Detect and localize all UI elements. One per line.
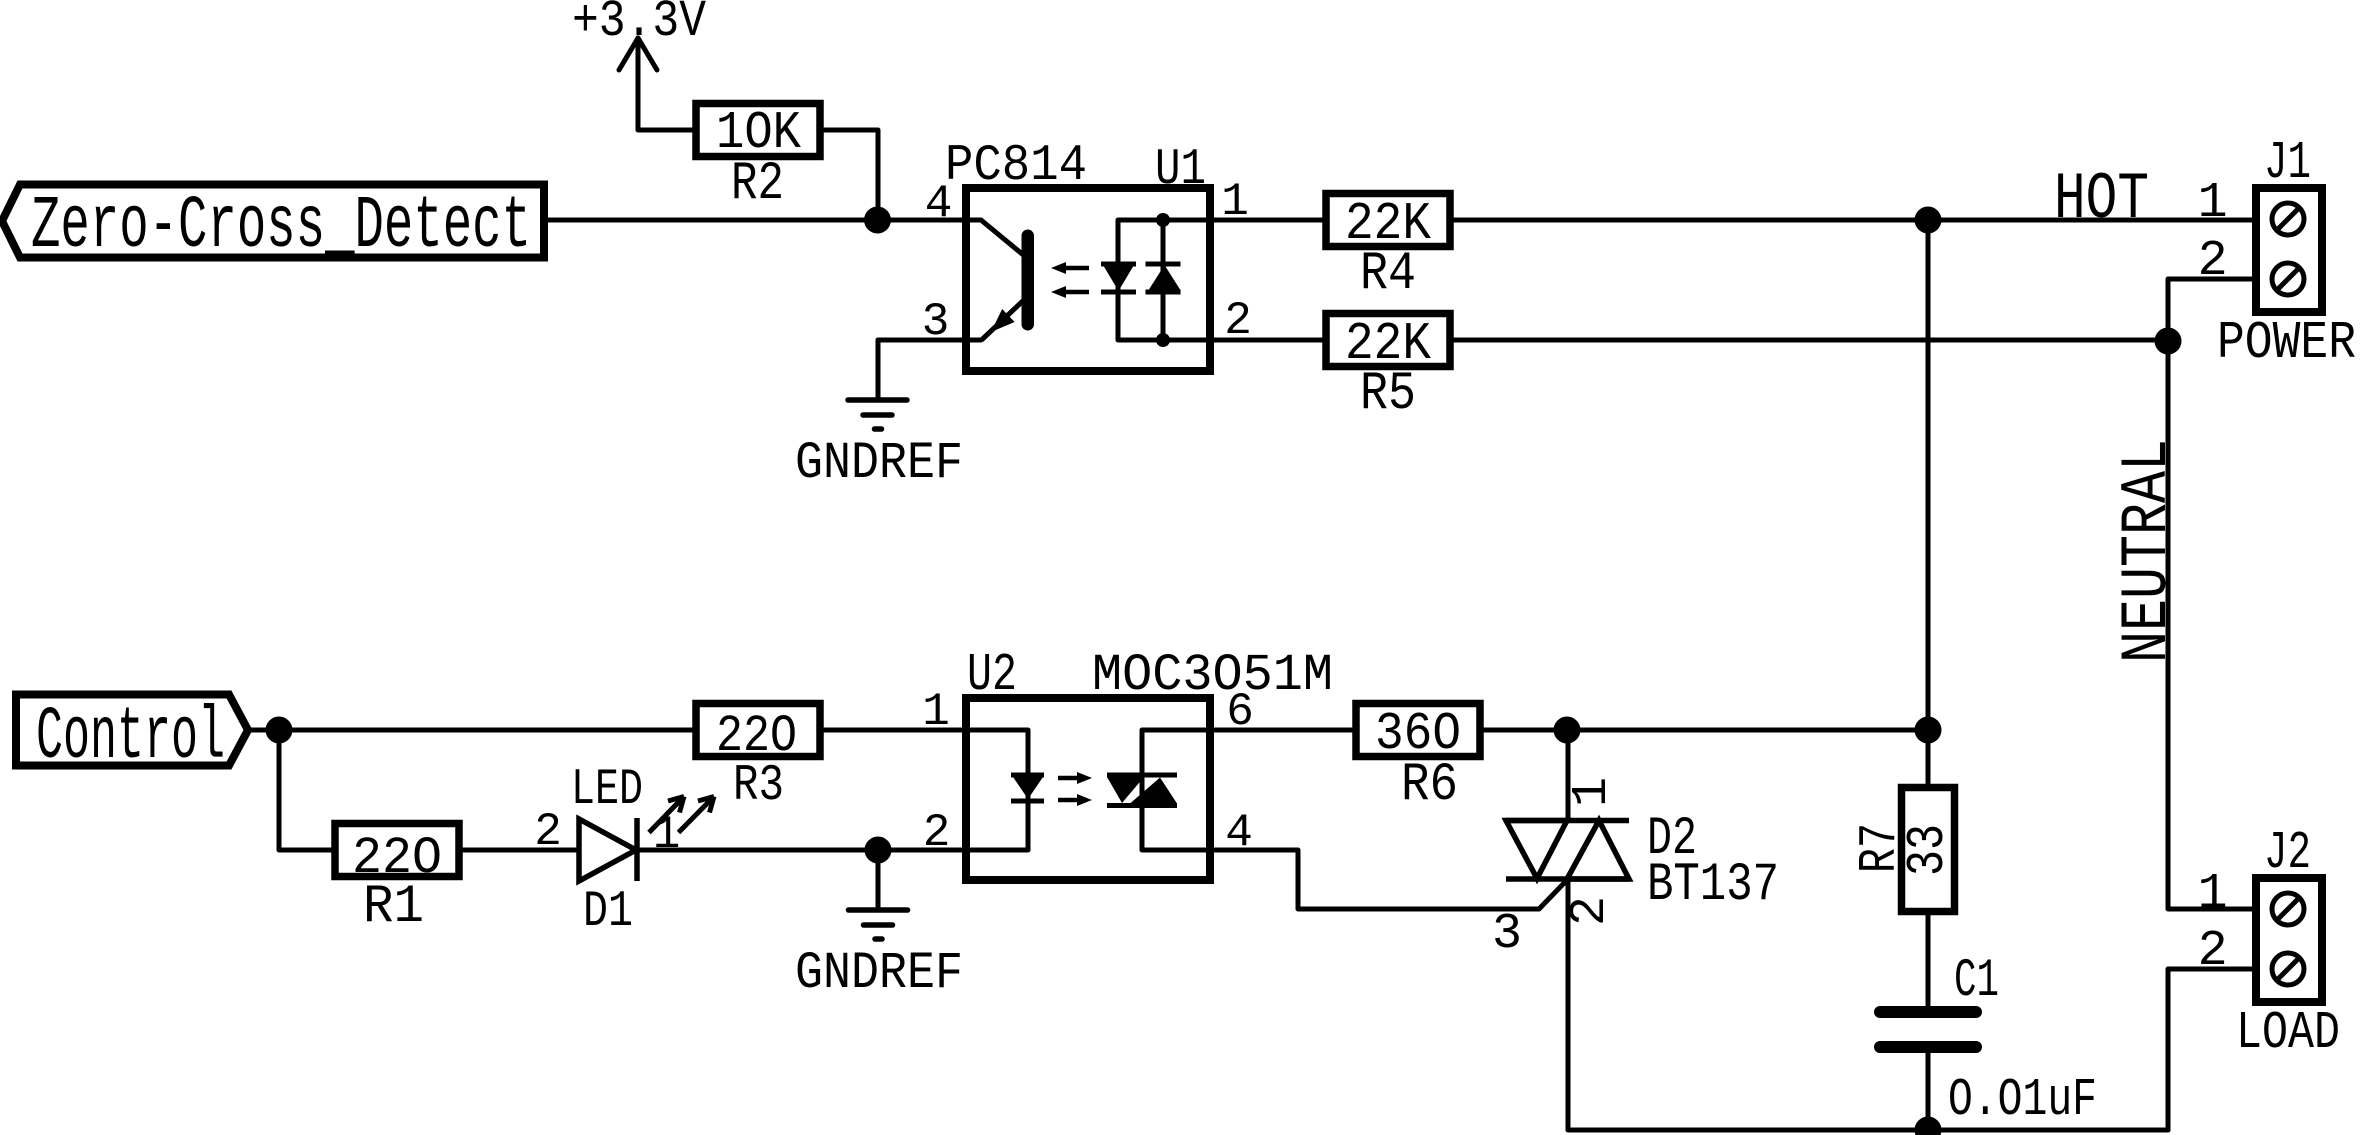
svg-text:R4: R4 xyxy=(1360,244,1416,305)
svg-text:HOT: HOT xyxy=(2054,162,2149,237)
svg-text:2: 2 xyxy=(923,807,951,859)
svg-text:R5: R5 xyxy=(1360,364,1416,425)
svg-text:U2: U2 xyxy=(967,645,1017,705)
svg-text:2: 2 xyxy=(2198,233,2228,290)
svg-text:1: 1 xyxy=(653,809,681,861)
svg-text:2: 2 xyxy=(1562,896,1619,926)
svg-text:Zero-Cross_Detect: Zero-Cross_Detect xyxy=(31,185,531,269)
svg-text:J2: J2 xyxy=(2264,823,2311,883)
svg-text:LED: LED xyxy=(571,762,643,819)
svg-text:O.O1uF: O.O1uF xyxy=(1948,1070,2097,1130)
svg-text:J1: J1 xyxy=(2264,133,2311,193)
svg-text:3: 3 xyxy=(1492,906,1522,963)
svg-text:Control: Control xyxy=(36,696,225,780)
svg-text:1: 1 xyxy=(2198,175,2228,232)
svg-text:MOC3O51M: MOC3O51M xyxy=(1092,646,1333,705)
svg-text:U1: U1 xyxy=(1155,142,1206,199)
svg-text:1: 1 xyxy=(1564,777,1621,807)
svg-text:1: 1 xyxy=(1221,176,1249,228)
svg-text:GNDREF: GNDREF xyxy=(795,434,963,493)
svg-text:33: 33 xyxy=(1898,824,1958,876)
svg-text:2: 2 xyxy=(1224,295,1252,347)
svg-text:LOAD: LOAD xyxy=(2236,1003,2340,1063)
svg-text:3: 3 xyxy=(922,296,950,348)
svg-text:6: 6 xyxy=(1226,686,1254,738)
svg-text:R3: R3 xyxy=(733,758,784,815)
svg-text:R1: R1 xyxy=(363,877,424,938)
svg-text:C1: C1 xyxy=(1954,951,1999,1012)
svg-text:R2: R2 xyxy=(731,154,784,215)
svg-text:2: 2 xyxy=(534,806,562,858)
svg-text:1: 1 xyxy=(922,686,950,738)
svg-text:BT137: BT137 xyxy=(1647,855,1779,916)
svg-text:D1: D1 xyxy=(583,884,633,941)
svg-text:NEUTRAL: NEUTRAL xyxy=(2110,439,2185,663)
svg-text:4: 4 xyxy=(925,178,953,230)
svg-text:1: 1 xyxy=(2198,866,2228,923)
svg-text:PC814: PC814 xyxy=(945,138,1087,195)
svg-text:2: 2 xyxy=(2198,923,2228,980)
svg-text:POWER: POWER xyxy=(2217,313,2356,373)
svg-text:4: 4 xyxy=(1225,807,1253,859)
svg-text:GNDREF: GNDREF xyxy=(795,944,963,1003)
svg-text:+3.3V: +3.3V xyxy=(572,0,706,51)
svg-text:R6: R6 xyxy=(1401,755,1458,816)
